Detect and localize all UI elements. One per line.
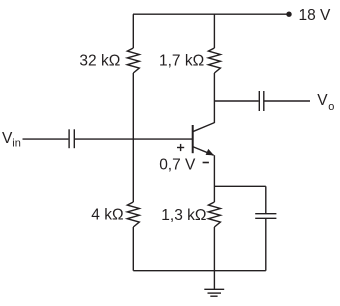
wire: bypass capacitor top lead bbox=[265, 186, 267, 213]
transistor Q1: collector lead diagonal bbox=[193, 123, 215, 132]
wire: emitter vertical down to R 1.3k and ground rail bbox=[213, 155, 215, 202]
label: plus sign of Vbe, horizontal stroke bbox=[177, 147, 184, 149]
capacitor: emitter bypass, bottom plate bbox=[255, 217, 276, 219]
wire: right branch from rail to R 1.7k top bbox=[213, 14, 215, 48]
resistor R 4 kOhm bbox=[127, 202, 139, 227]
wire: collector branch (R 1.7k bottom to transistor collector), output junction bbox=[213, 73, 215, 123]
wire: left branch from rail to R1 top bbox=[132, 14, 134, 48]
capacitor: emitter bypass, top plate bbox=[255, 213, 276, 215]
wire: bypass capacitor bottom lead to ground rail bbox=[265, 219, 267, 271]
resistor R 32 kOhm bbox=[127, 48, 139, 73]
svg-text:32 kΩ: 32 kΩ bbox=[79, 52, 120, 69]
ground: stem bbox=[213, 271, 215, 290]
wire: R 1.3k bottom to ground rail bbox=[213, 227, 215, 271]
label: minus sign of Vbe bbox=[203, 162, 209, 164]
capacitor: output coupling, left plate bbox=[258, 91, 260, 111]
resistor R 1,3 kOhm bbox=[208, 202, 220, 227]
wire: emitter node branch to bypass capacitor bbox=[214, 185, 265, 187]
wire: output branch from collector node to coupling capacitor bbox=[214, 100, 258, 102]
svg-text:18 V: 18 V bbox=[299, 7, 332, 24]
ground: top bar bbox=[204, 288, 224, 290]
svg-text:4 kΩ: 4 kΩ bbox=[91, 206, 123, 223]
wire: coupling capacitor to Vo terminal bbox=[265, 100, 311, 102]
transistor Q1: emitter lead diagonal bbox=[193, 147, 214, 156]
resistor R 1,7 kOhm bbox=[208, 48, 220, 73]
capacitor: input coupling, right plate bbox=[73, 129, 75, 148]
svg-text:1,3 kΩ: 1,3 kΩ bbox=[161, 207, 206, 224]
ground: middle bar bbox=[208, 292, 222, 294]
wire: input capacitor to transistor base (through divider junction) bbox=[75, 138, 193, 140]
wire: bottom ground rail bbox=[133, 270, 265, 272]
wire: left branch bottom (R 4k to ground rail) bbox=[132, 227, 134, 271]
wire: Vin terminal to input capacitor bbox=[23, 138, 69, 140]
label: plus sign of Vbe, vertical stroke bbox=[180, 144, 182, 151]
capacitor: input coupling, left plate bbox=[68, 129, 70, 148]
svg-text:Vo: Vo bbox=[317, 92, 334, 113]
capacitor: output coupling, right plate bbox=[263, 91, 265, 111]
ground: bottom bar bbox=[210, 295, 217, 297]
wire: left branch middle (R 32k bottom through base junction to R 4k top) bbox=[132, 73, 134, 202]
transistor Q1: base bar bbox=[192, 125, 194, 153]
transistor Q1: emitter arrowhead bbox=[206, 149, 214, 156]
node: 18 V supply terminal dot bbox=[286, 12, 291, 17]
wire: +18V top supply rail bbox=[133, 13, 289, 15]
svg-text:Vin: Vin bbox=[2, 130, 21, 150]
svg-text:1,7 kΩ: 1,7 kΩ bbox=[159, 53, 204, 70]
svg-text:0,7 V: 0,7 V bbox=[159, 157, 196, 174]
